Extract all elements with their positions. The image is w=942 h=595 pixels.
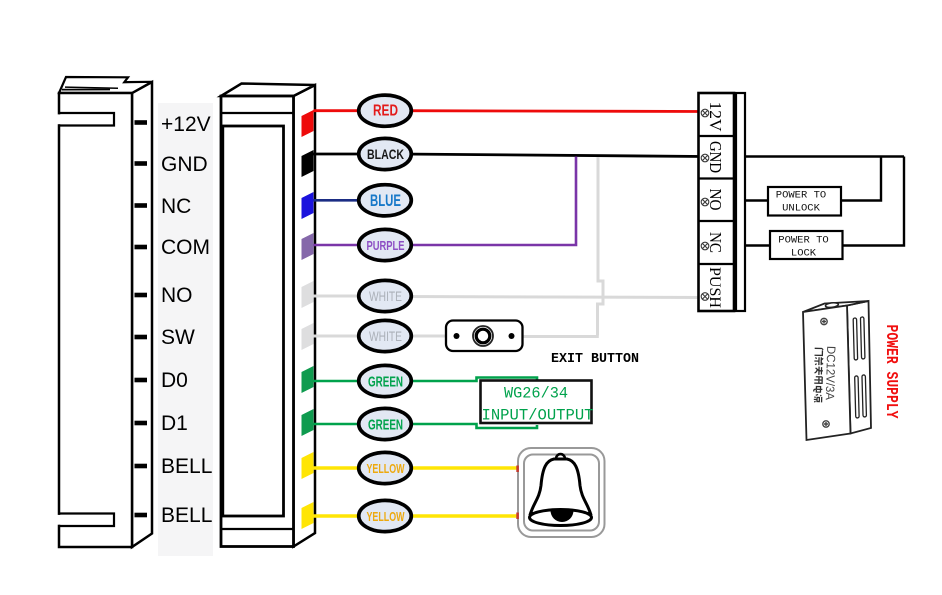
svg-text:NO: NO xyxy=(161,284,193,307)
svg-text:WHITE: WHITE xyxy=(369,328,402,344)
svg-text:EXIT BUTTON: EXIT BUTTON xyxy=(551,352,639,367)
svg-text:PURPLE: PURPLE xyxy=(367,238,405,253)
svg-text:YELLOW: YELLOW xyxy=(367,509,405,524)
svg-text:INPUT/OUTPUT: INPUT/OUTPUT xyxy=(482,407,594,425)
svg-text:COM: COM xyxy=(161,236,210,259)
svg-text:GREEN: GREEN xyxy=(368,374,403,391)
svg-text:D0: D0 xyxy=(161,369,188,392)
svg-text:POWER SUPPLY: POWER SUPPLY xyxy=(881,325,900,420)
svg-text:GND: GND xyxy=(161,153,208,176)
svg-text:WG26/34: WG26/34 xyxy=(504,385,568,403)
svg-text:D1: D1 xyxy=(161,412,188,435)
svg-text:BLACK: BLACK xyxy=(367,146,404,162)
svg-text:BLUE: BLUE xyxy=(370,192,401,210)
svg-text:12V: 12V xyxy=(706,102,725,133)
svg-text:POWER TO: POWER TO xyxy=(778,234,828,246)
svg-text:PUSH: PUSH xyxy=(706,267,723,308)
svg-text:BELL: BELL xyxy=(161,504,212,527)
svg-text:NC: NC xyxy=(161,195,191,218)
svg-text:RED: RED xyxy=(373,103,398,120)
svg-text:GREEN: GREEN xyxy=(368,417,403,434)
svg-text:NC: NC xyxy=(706,232,725,253)
svg-text:POWER TO: POWER TO xyxy=(776,190,826,202)
svg-text:LOCK: LOCK xyxy=(791,248,817,260)
svg-text:NO: NO xyxy=(706,189,725,211)
svg-text:UNLOCK: UNLOCK xyxy=(782,203,821,215)
svg-text:WHITE: WHITE xyxy=(369,288,402,304)
svg-text:+12V: +12V xyxy=(161,113,211,136)
svg-text:DC12V/3A: DC12V/3A xyxy=(823,346,838,400)
svg-text:BELL: BELL xyxy=(161,455,212,478)
svg-text:SW: SW xyxy=(161,326,195,349)
svg-text:YELLOW: YELLOW xyxy=(367,461,405,476)
